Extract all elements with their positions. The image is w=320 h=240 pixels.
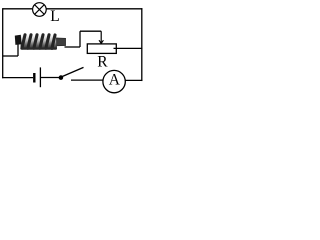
svg-text:R: R bbox=[97, 54, 108, 71]
wire: slider top run (horizontal) bbox=[80, 30, 101, 32]
wire: rheostat right terminal bbox=[114, 47, 143, 49]
wire: switch fixed terminal to ammeter bbox=[71, 79, 103, 81]
rheostat R (box) bbox=[87, 44, 116, 54]
battery cell bbox=[34, 67, 40, 87]
wire: coil right lead (horizontal) bbox=[65, 46, 81, 48]
wire: slider riser (vertical up) bbox=[79, 31, 81, 47]
wire: bottom rail left (to battery) bbox=[2, 77, 33, 79]
coil (solenoid) bbox=[15, 35, 66, 50]
wire: right rail bbox=[141, 8, 143, 81]
svg-text:L: L bbox=[50, 8, 59, 25]
wire: slider drop with arrow onto rheostat bbox=[99, 31, 103, 43]
wire: top rail right segment (lamp to top-right corner) bbox=[46, 8, 142, 10]
ammeter A bbox=[103, 70, 125, 92]
lamp L (circle with X) bbox=[33, 3, 47, 17]
wire: left rail bbox=[2, 8, 4, 78]
wire: battery to switch bbox=[41, 77, 60, 79]
wire: top rail left segment (left rail to lamp) bbox=[3, 8, 32, 10]
switch S (open, pivot dot and lever) bbox=[59, 67, 84, 79]
svg-text:A: A bbox=[109, 72, 121, 89]
wire: ammeter to bottom-right corner bbox=[125, 79, 142, 81]
wire: coil left lead (vertical) bbox=[17, 44, 19, 56]
wire: tap from left rail to coil (horizontal) bbox=[3, 55, 18, 57]
